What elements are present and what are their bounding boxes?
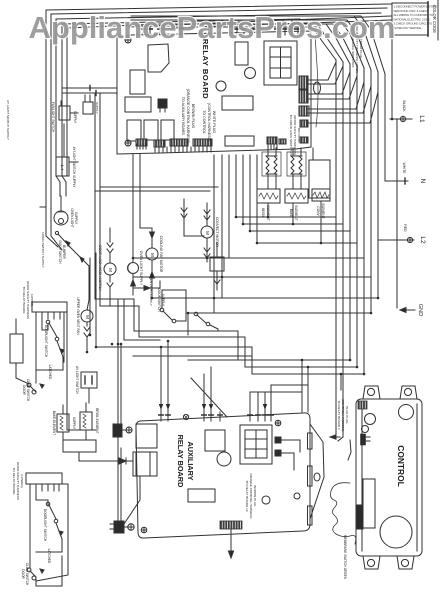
- svg-text:MEMBRANE SWITCH GREEN: MEMBRANE SWITCH GREEN: [343, 535, 347, 580]
- relay small dark lower: [110, 521, 124, 533]
- heating element E2 housing: [287, 152, 306, 176]
- aux flap circle: [314, 473, 320, 481]
- component rect right: [133, 452, 150, 476]
- component box tall right: [309, 160, 330, 198]
- control mounting tab bottom-right: [397, 556, 414, 569]
- wire stair row2: [243, 155, 343, 224]
- pin aux board top 8: [263, 412, 267, 421]
- svg-text:BROWN PLUG: BROWN PLUG: [191, 104, 195, 129]
- svg-text:RELAY BOARD: RELAY BOARD: [176, 435, 185, 488]
- wire stair left links: [133, 240, 222, 335]
- svg-text:AY LIGHT SWITCH SUPPLY: AY LIGHT SWITCH SUPPLY: [72, 147, 76, 189]
- convect aux box: [210, 257, 224, 271]
- wire right bundle v1: [335, 60, 337, 437]
- arrowheads at aux pins: [159, 404, 267, 410]
- connector pins lower: [30, 484, 59, 491]
- wire right bundle v3: [349, 64, 351, 360]
- motor convection M1: [201, 226, 213, 238]
- capacitor C1: [235, 42, 248, 65]
- connector J2b bottom: [170, 139, 188, 146]
- svg-text:M: M: [205, 231, 210, 235]
- wire stair row4: [257, 155, 357, 243]
- ground screw symbol: [126, 427, 132, 433]
- terminal L1: [390, 116, 412, 121]
- wire element E1 leads: [268, 148, 276, 189]
- svg-text:CONV: CONV: [316, 206, 320, 216]
- wire mid bundle h2: [100, 306, 357, 367]
- wire left-border lower continuation: [46, 176, 58, 247]
- wire mid v drop c: [340, 374, 342, 390]
- wire aux drop 6: [257, 392, 259, 412]
- border frame line 4: [62, 19, 300, 176]
- wire right bundle v5: [363, 68, 365, 374]
- wire element E2 leads: [293, 148, 301, 189]
- aux connector dark: [220, 521, 242, 558]
- wire top drop 2: [291, 20, 293, 27]
- svg-text:N: N: [419, 179, 426, 184]
- control circle small1: [365, 414, 376, 425]
- terminal N: [385, 178, 408, 184]
- aux board pointed flap: [310, 424, 324, 519]
- pin aux board top 4: [209, 412, 213, 421]
- svg-text:CONTROL: CONTROL: [396, 445, 406, 486]
- svg-text:OVEN LIGHT SUPPLY: OVEN LIGHT SUPPLY: [139, 251, 143, 286]
- wire aux drop 1: [160, 347, 162, 412]
- wire loop upper right2: [63, 319, 65, 362]
- switch doorlight upper: [46, 320, 59, 341]
- wire line between aux and control: [348, 440, 351, 460]
- svg-text:(LOWER): (LOWER): [20, 474, 24, 487]
- wire bundle bottom b1: [332, 436, 336, 438]
- connector J3 bottom: [267, 137, 277, 144]
- wire board-to-bundle 6: [308, 86, 371, 113]
- control inner edge right: [416, 404, 418, 551]
- connector J5 right edge: [299, 76, 308, 89]
- svg-text:LATCHED: LATCHED: [47, 549, 51, 564]
- wire gnd link: [122, 429, 126, 431]
- wire board drop v7: [228, 155, 230, 258]
- wire aux drop 7: [264, 392, 266, 412]
- wire left edge tick: [40, 206, 46, 208]
- control circle top: [399, 405, 414, 420]
- aux edge connector 3: [308, 506, 313, 525]
- wire chain to box: [88, 276, 90, 300]
- svg-text:COLOR CODE: COLOR CODE: [432, 5, 437, 33]
- svg-text:TO RELAY BOARD: TO RELAY BOARD: [12, 468, 16, 496]
- wire bundle top sweep 1: [160, 27, 336, 60]
- terminal L2: [378, 237, 414, 242]
- connector pin ticks under J2: [155, 147, 211, 152]
- svg-text:DOOR: DOOR: [21, 569, 25, 579]
- wire mid horizontal pair b: [95, 190, 210, 192]
- resistor R1 box: [257, 189, 280, 203]
- svg-text:SUPPLY: SUPPLY: [74, 212, 78, 225]
- svg-text:(UPPER): (UPPER): [30, 294, 34, 307]
- screw aux top x: [183, 414, 188, 419]
- aux screw left mid: [275, 420, 281, 426]
- component side rect upper: [10, 334, 23, 363]
- wire top drop to L1 bundle: [282, 20, 284, 27]
- control dark connector left: [356, 505, 363, 529]
- switch latched lower: [56, 523, 63, 539]
- control circle small2: [362, 426, 369, 433]
- svg-text:BAKE: BAKE: [289, 209, 293, 218]
- relay K1: [148, 44, 169, 72]
- wire door supply h: [162, 290, 186, 321]
- wire right bundle v9: [391, 35, 393, 119]
- wire left box stub 2: [69, 161, 78, 163]
- wire convect aux leads: [214, 243, 220, 290]
- border frame line 5: [67, 24, 160, 176]
- junction dots group: [86, 118, 394, 376]
- connector pins upper: [36, 312, 64, 319]
- wire frame to board feed 1: [62, 86, 117, 91]
- wire board-to-bundle 4: [308, 76, 357, 99]
- connector box left second: [83, 95, 93, 114]
- pin P6 relay board top: [242, 27, 246, 35]
- wire board drop v5: [213, 155, 215, 298]
- control display slot: [363, 479, 375, 528]
- svg-text:DOORLIGHT SWITCH: DOORLIGHT SWITCH: [43, 509, 47, 542]
- pin aux board top 3: [202, 412, 206, 421]
- svg-text:DOOR SAFETY HARNESS: DOOR SAFETY HARNESS: [16, 462, 20, 500]
- svg-text:CLAW SWITCH: CLAW SWITCH: [26, 379, 30, 402]
- wire element E3 lead: [320, 201, 322, 243]
- svg-text:LATCHED: LATCHED: [48, 365, 52, 380]
- wire chevrons under motor: [84, 322, 90, 337]
- svg-text:FAN/LIGHT SWITCH: FAN/LIGHT SWITCH: [51, 102, 55, 133]
- resistor R2 box: [285, 189, 308, 203]
- svg-text:ELEMENT: ELEMENT: [321, 203, 325, 218]
- wire resistor R1 lead down: [268, 201, 321, 222]
- wire arrow chain: [80, 257, 84, 262]
- wire gnd vertical: [396, 119, 398, 308]
- wire long left v2: [95, 253, 97, 347]
- wire lower vertical 121: [120, 448, 122, 521]
- wire lower chain links: [30, 491, 62, 586]
- wire board drop v6: [221, 155, 223, 277]
- wire component vertical pair: [118, 344, 121, 521]
- svg-text:BLACK: BLACK: [402, 100, 406, 112]
- pin P3 relay board top: [158, 27, 162, 35]
- wire stair row5: [133, 257, 364, 259]
- relay board outline: [117, 31, 311, 154]
- wire left long vertical 2: [99, 93, 101, 306]
- wire right bundle v7: [377, 72, 379, 298]
- wire diag to aux: [191, 378, 227, 417]
- wire chain to door fan motor: [87, 300, 89, 310]
- wire aux feed h2: [271, 385, 308, 412]
- wire left box link: [63, 124, 65, 157]
- switch door supply: [160, 308, 186, 323]
- switch door bumper: [55, 231, 70, 247]
- heating element E1 coil: [266, 156, 277, 174]
- wire bundle top sweep 4: [160, 24, 357, 66]
- connector box mid rect: [63, 440, 96, 452]
- pin aux board top 1: [159, 412, 163, 421]
- aux relay C: [205, 430, 225, 451]
- wire bundle top sweep 8: [131, 16, 385, 74]
- svg-text:(CONTROL HARNESS): (CONTROL HARNESS): [207, 103, 211, 141]
- svg-text:M: M: [150, 253, 155, 257]
- svg-text:ORANGE CONTROL HARNESS: ORANGE CONTROL HARNESS: [249, 473, 253, 518]
- notes box top-right: [392, 3, 428, 35]
- svg-text:DOOR SWITCH: DOOR SWITCH: [58, 240, 62, 264]
- svg-text:1-4: 1-4: [60, 165, 65, 172]
- wire mid v drop b: [307, 367, 309, 412]
- wire stair row6: [133, 276, 371, 278]
- wire aux drop 2: [167, 341, 169, 412]
- svg-text:AFTER ANY SERVICE.: AFTER ANY SERVICE.: [394, 26, 423, 30]
- wire mid h lower: [188, 359, 238, 361]
- component wide rect 1: [222, 96, 253, 110]
- pin aux board top 6: [248, 412, 252, 421]
- wire right bundle v4: [356, 66, 358, 367]
- circle right of board: [314, 82, 321, 94]
- wire right bundle v2: [342, 62, 344, 437]
- control conn hatched mid: [361, 434, 371, 445]
- wire oven light L-path: [133, 274, 160, 290]
- wire frame to board feed 2: [62, 91, 117, 96]
- svg-text:TO RELAY BOARD 10: TO RELAY BOARD 10: [245, 480, 249, 511]
- wire door fan leads: [86, 337, 88, 352]
- auxiliary relay board outline: [136, 413, 310, 538]
- svg-text:DOOR SWITCH: DOOR SWITCH: [157, 288, 161, 312]
- wire right bundle v8: [384, 74, 386, 181]
- svg-text:COOLING FAN MOTOR: COOLING FAN MOTOR: [159, 236, 163, 273]
- wire board-to-bundle 2: [308, 66, 343, 84]
- wire stair row3: [250, 155, 350, 231]
- border frame line 1: [46, 4, 391, 176]
- svg-text:WHITE: WHITE: [402, 163, 406, 175]
- relay K4: [127, 120, 141, 141]
- svg-text:SUPPLY: SUPPLY: [95, 102, 99, 114]
- svg-text:BLUE PLUG: BLUE PLUG: [345, 406, 349, 424]
- switch door supply relocate: [194, 312, 218, 331]
- diode pair component: [113, 414, 122, 448]
- wire bundle top sweep 7: [131, 16, 378, 72]
- control big circle: [380, 516, 412, 548]
- svg-text:RELAY BOARD: RELAY BOARD: [201, 39, 210, 99]
- circle inside board right: [216, 81, 226, 91]
- wire right bundle v6: [370, 70, 372, 313]
- border frame line 3: [56, 13, 381, 176]
- wire lamp left top: [60, 196, 62, 211]
- wire board drop v9: [140, 154, 152, 228]
- switch latched upper: [57, 341, 64, 357]
- svg-text:WHITE PLUG: WHITE PLUG: [212, 111, 216, 134]
- relay K3: [125, 97, 151, 112]
- svg-text:TO CONTROL: TO CONTROL: [202, 110, 206, 134]
- pin aux board top 7: [256, 412, 260, 421]
- pin P1 relay board top: [141, 27, 145, 35]
- pin P8 relay board top: [275, 27, 279, 35]
- svg-text:OVEN LIGHT: OVEN LIGHT: [70, 208, 74, 227]
- wire chevrons above M4: [107, 228, 113, 263]
- wire switch chain down: [70, 247, 89, 276]
- wire top feed 1: [131, 16, 391, 27]
- relay K5: [144, 120, 158, 140]
- wire chevron below M4: [107, 275, 113, 306]
- connector J7 right edge: [299, 106, 309, 116]
- terminal GND arrow: [400, 308, 415, 313]
- resistor bake element: [57, 414, 69, 432]
- wire board-to-bundle 7: [308, 92, 378, 123]
- wire frame jog 2: [62, 176, 66, 196]
- svg-text:TO AUXILIARY BOARD: TO AUXILIARY BOARD: [181, 97, 185, 136]
- connector pin ticks under J3: [268, 144, 277, 149]
- motor door lock M4: [104, 263, 116, 275]
- wire left long vertical 1: [94, 93, 96, 299]
- wire convect branch vertical: [181, 199, 204, 236]
- control mounting tab bottom-left: [363, 556, 380, 569]
- wire mid bundle h3: [96, 347, 364, 374]
- svg-text:DOOR: DOOR: [22, 385, 26, 395]
- arrow into aux right: [330, 435, 340, 439]
- wire stair row7: [152, 297, 378, 299]
- svg-text:AY LIGHT SWITCH SUPPLY: AY LIGHT SWITCH SUPPLY: [6, 100, 10, 140]
- connector box A1 light switch: [56, 157, 69, 176]
- wire board drop v8: [132, 154, 134, 240]
- connector J2 bottom: [154, 140, 165, 147]
- connector J6 right edge: [299, 90, 308, 103]
- svg-text:(DOOR SAFETY HARNESS): (DOOR SAFETY HARNESS): [293, 115, 297, 155]
- wire long left v1: [89, 258, 91, 335]
- wire element leads mid: [63, 388, 89, 444]
- wire aux drop 3: [203, 374, 205, 412]
- wire bundle top sweep 2: [160, 27, 343, 62]
- svg-text:AY LIGHT SWITCH: AY LIGHT SWITCH: [75, 366, 79, 394]
- relay K6: [161, 120, 174, 140]
- pin P7 relay board top: [251, 27, 255, 35]
- transformer T1 grid: [270, 47, 291, 78]
- svg-text:M: M: [85, 315, 90, 319]
- svg-text:DOOR SWITCH SUPPLY: DOOR SWITCH SUPPLY: [41, 232, 45, 267]
- relay coil circle: [245, 68, 256, 79]
- pin P11 relay board top: [296, 27, 300, 35]
- screw hole bottom-left: [125, 140, 131, 146]
- wire bundle top sweep 3: [160, 24, 350, 64]
- screw aux bottom-left: [141, 527, 147, 533]
- control panel body: [356, 399, 422, 556]
- control mounting tab top-right: [400, 386, 417, 399]
- connector J2c bottom: [193, 139, 212, 146]
- svg-text:OVEN LIGHT SUPPLY: OVEN LIGHT SUPPLY: [149, 274, 153, 306]
- ribbon cable squiggle: [330, 483, 355, 544]
- aux transformer grid: [240, 425, 272, 464]
- connector J1 bottom: [136, 139, 147, 146]
- relay K2: [130, 70, 145, 94]
- wire stair row8: [188, 312, 371, 314]
- aux circle comp: [217, 452, 231, 466]
- wire convect leads with arrows: [204, 203, 210, 262]
- wire top feed 2: [160, 20, 391, 29]
- wire door supply v2: [124, 300, 160, 340]
- svg-text:AppliancePartsPros.com: AppliancePartsPros.com: [29, 10, 396, 45]
- pin aux board top 5: [218, 412, 222, 421]
- wire upper chain links: [36, 319, 63, 383]
- wire left-border lower continuation 2: [51, 176, 62, 250]
- aux rect lower: [188, 489, 215, 502]
- wire aux drop 5: [249, 392, 251, 412]
- diode D1 on wire: [96, 458, 133, 464]
- svg-text:TO DOOR LOCK SWITCHES: TO DOOR LOCK SWITCHES: [289, 115, 293, 156]
- aux dark pin a: [275, 437, 300, 452]
- aux circle small: [262, 496, 270, 504]
- connector J8 right edge: [300, 120, 308, 127]
- wire bundle top sweep 5: [131, 20, 364, 68]
- pin P4 relay board top: [179, 27, 183, 35]
- wire bundle top sweep 6: [131, 20, 371, 70]
- screw hole top-left: [125, 37, 131, 43]
- wire loop lower right: [36, 484, 68, 581]
- pin P5 relay board top: [235, 27, 239, 35]
- motor cooling fan M2: [146, 248, 158, 260]
- svg-text:AUXILIARY: AUXILIARY: [186, 441, 195, 480]
- wire aux feed h: [250, 391, 302, 393]
- wire element E3 top: [312, 148, 314, 160]
- svg-text:RED: RED: [403, 224, 407, 232]
- pin P10 relay board top: [290, 27, 294, 35]
- svg-text:UPPER OVEN VENT FAN: UPPER OVEN VENT FAN: [76, 297, 80, 335]
- connector box fan light switch: [59, 101, 70, 120]
- wire loop upper right: [67, 312, 96, 430]
- pin aux board top 2: [166, 412, 170, 421]
- connector pin ticks under J1: [137, 144, 146, 149]
- border frame line 2: [51, 8, 387, 176]
- wire board-to-bundle 5: [308, 82, 364, 109]
- aux edge connector 2: [308, 466, 313, 486]
- svg-text:TO RELAY BOARD 2: TO RELAY BOARD 2: [337, 400, 341, 430]
- svg-text:BROWN PLUG: BROWN PLUG: [253, 485, 257, 507]
- pin P2 relay board top: [148, 27, 152, 35]
- wire stair row1: [236, 155, 336, 217]
- aux screw right: [294, 493, 300, 499]
- wire side rect leads: [16, 319, 29, 384]
- ground screw lower: [128, 524, 134, 530]
- resistor R3 box: [312, 189, 330, 201]
- wire mid horizontal pair a: [100, 186, 218, 188]
- wire lower to upper link: [79, 452, 96, 461]
- control mounting tab top-left: [363, 386, 380, 399]
- aux relay B: [136, 452, 157, 476]
- connector J4b bottom: [300, 137, 308, 143]
- control inner edge left: [361, 404, 363, 551]
- wire oven light arrow: [131, 280, 136, 286]
- wire element E2 drop: [292, 203, 294, 224]
- wire rect lead down: [124, 476, 140, 524]
- heating element E2 coil: [291, 156, 302, 174]
- switch doorlight lower: [46, 502, 58, 523]
- heating element E1 housing: [262, 152, 281, 176]
- pin P9 relay board top: [283, 27, 287, 35]
- lamp oven light 1: [128, 263, 139, 274]
- svg-text:(ORANGE CONTROL HARNESS): (ORANGE CONTROL HARNESS): [186, 89, 190, 144]
- connector box light switch mid: [81, 372, 97, 388]
- connector box lower door harness: [26, 473, 62, 484]
- svg-text:BAKE ELEMENT: BAKE ELEMENT: [52, 411, 56, 435]
- svg-text:L1: L1: [418, 115, 425, 123]
- svg-text:BUMPER: BUMPER: [62, 245, 66, 259]
- svg-text:CLAW SWITCH: CLAW SWITCH: [25, 563, 29, 586]
- connector box upper door harness: [32, 302, 67, 312]
- switch door claw lower: [27, 568, 44, 580]
- svg-text:DOOR SAFETY HARNESS: DOOR SAFETY HARNESS: [26, 281, 30, 319]
- svg-text:BROIL ELEMENT: BROIL ELEMENT: [95, 408, 99, 433]
- transformer T1 outline: [264, 41, 297, 85]
- notes box heavy right edge: [427, 2, 429, 36]
- wire board right parallel: [315, 36, 318, 127]
